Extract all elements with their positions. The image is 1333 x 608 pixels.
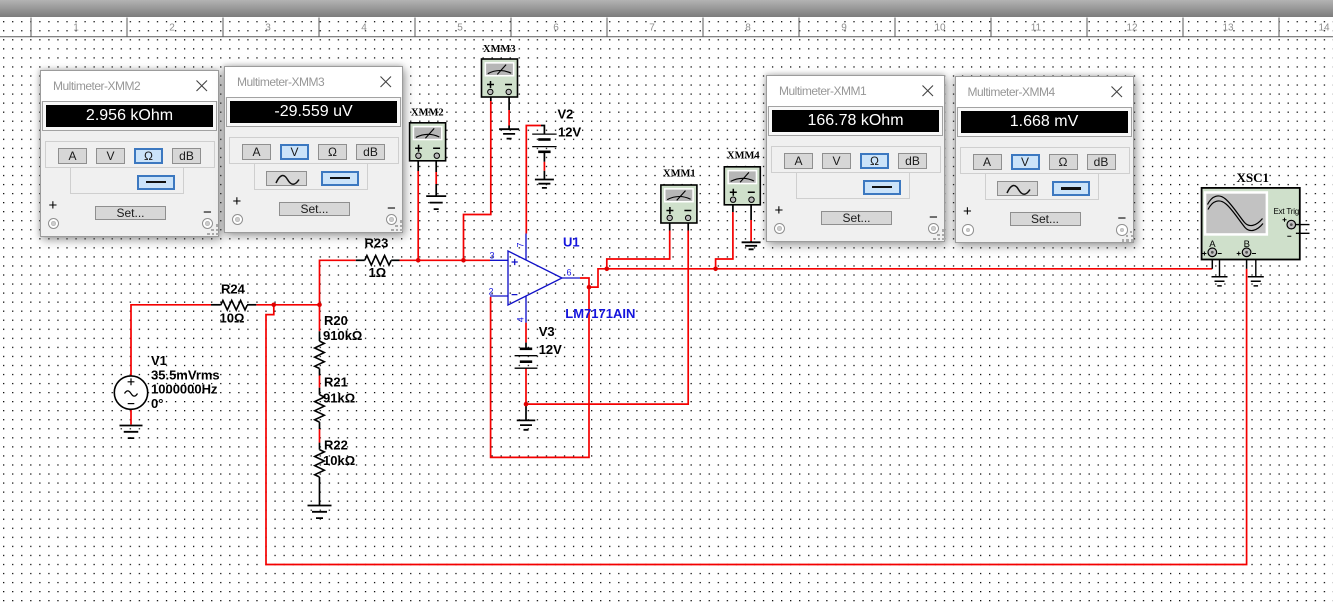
svg-text:R21: R21 (324, 375, 348, 390)
svg-text:1: 1 (73, 23, 79, 34)
svg-text:6: 6 (567, 267, 572, 277)
svg-text:3: 3 (490, 251, 495, 261)
svg-text:1Ω: 1Ω (369, 265, 387, 280)
svg-text:4: 4 (361, 23, 367, 34)
svg-text:LM7171AIN: LM7171AIN (565, 306, 635, 321)
svg-text:XMM2: XMM2 (411, 107, 444, 118)
svg-text:35.5mVrms: 35.5mVrms (151, 367, 220, 382)
svg-text:R22: R22 (324, 438, 348, 453)
svg-text:U1: U1 (563, 235, 580, 250)
svg-text:5: 5 (457, 23, 463, 34)
svg-text:1000000Hz: 1000000Hz (151, 382, 218, 397)
svg-text:2: 2 (489, 286, 494, 296)
svg-text:7: 7 (649, 23, 655, 34)
svg-text:V1: V1 (151, 353, 167, 368)
svg-text:4: 4 (516, 317, 526, 322)
svg-text:7: 7 (516, 242, 526, 247)
svg-text:R24: R24 (221, 282, 246, 297)
svg-text:V3: V3 (539, 324, 555, 339)
svg-text:910kΩ: 910kΩ (323, 328, 362, 343)
svg-text:12V: 12V (558, 125, 581, 140)
svg-text:9: 9 (841, 23, 847, 34)
svg-text:11: 11 (1031, 23, 1042, 34)
svg-text:V2: V2 (558, 106, 574, 121)
svg-text:R20: R20 (324, 313, 348, 328)
svg-text:14: 14 (1318, 23, 1330, 34)
svg-text:12: 12 (1126, 23, 1138, 34)
svg-text:12V: 12V (539, 342, 562, 357)
svg-text:XMM1: XMM1 (663, 169, 696, 180)
svg-text:91kΩ: 91kΩ (323, 390, 355, 405)
svg-text:10kΩ: 10kΩ (323, 453, 355, 468)
svg-text:10: 10 (934, 23, 946, 34)
svg-text:10Ω: 10Ω (220, 310, 245, 325)
svg-text:XMM3: XMM3 (483, 44, 516, 55)
svg-text:2: 2 (169, 23, 175, 34)
svg-text:XSC1: XSC1 (1237, 170, 1270, 185)
svg-text:3: 3 (265, 23, 271, 34)
svg-text:6: 6 (553, 23, 559, 34)
svg-text:R23: R23 (365, 236, 389, 251)
svg-text:0°: 0° (151, 396, 163, 411)
svg-text:XMM4: XMM4 (727, 151, 760, 162)
svg-text:Ext Trig: Ext Trig (1274, 207, 1300, 216)
svg-text:13: 13 (1222, 23, 1234, 34)
svg-text:8: 8 (745, 23, 751, 34)
